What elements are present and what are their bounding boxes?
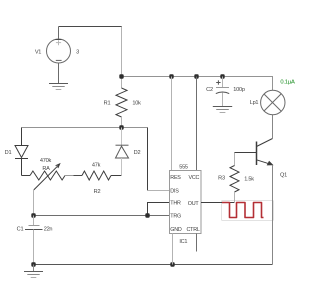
node dot VCC stub xyxy=(194,74,198,78)
wire vertical drop to top rail xyxy=(121,27,123,77)
svg-text:R3: R3 xyxy=(218,176,225,182)
wire V1 top to rail corner xyxy=(59,26,123,28)
svg-text:555: 555 xyxy=(179,164,188,170)
ground bottom left xyxy=(24,265,43,278)
svg-text:10k: 10k xyxy=(132,100,141,106)
svg-text:D1: D1 xyxy=(5,150,12,156)
wire OUT net xyxy=(201,202,235,204)
wire R3 to base xyxy=(235,152,257,154)
wire RA to R2 xyxy=(65,175,74,177)
svg-text:R2: R2 xyxy=(94,189,101,195)
svg-text:47k: 47k xyxy=(92,162,101,168)
svg-text:THR: THR xyxy=(170,201,181,207)
svg-text:TRG: TRG xyxy=(170,213,181,219)
wire top supply rail xyxy=(122,77,273,91)
wire DIS link vertical xyxy=(147,128,149,191)
svg-text:C2: C2 xyxy=(206,87,213,93)
svg-text:Q1: Q1 xyxy=(280,173,287,179)
diode D1 xyxy=(15,128,28,176)
svg-text:0.1µA: 0.1µA xyxy=(280,80,295,86)
svg-text:IC1: IC1 xyxy=(179,239,187,245)
potentiometer RA xyxy=(30,164,65,190)
node dot C1 bottom xyxy=(31,262,35,266)
resistor R2 xyxy=(82,171,111,180)
wire GND stub xyxy=(172,234,174,265)
node dot GND stub xyxy=(170,262,174,266)
wire bottom ground rail xyxy=(34,264,273,266)
svg-text:V1: V1 xyxy=(35,50,41,56)
node dot THR/TRG xyxy=(145,213,149,217)
node dot RES stub xyxy=(169,74,173,78)
svg-text:CTRL: CTRL xyxy=(187,227,200,233)
wire emitter down xyxy=(272,165,274,265)
wire THR link xyxy=(148,203,170,216)
voltage source V1 xyxy=(47,27,71,84)
svg-text:OUT: OUT xyxy=(188,201,200,207)
capacitor C2 xyxy=(216,77,229,107)
svg-text:R1: R1 xyxy=(104,100,111,106)
wire VCC stub xyxy=(196,77,198,171)
wire mid horizontal node xyxy=(22,127,148,129)
ground below C2 xyxy=(213,107,232,113)
svg-text:22n: 22n xyxy=(44,226,53,232)
wire TRG net xyxy=(34,215,170,217)
wire CTRL stub dangling xyxy=(196,234,198,252)
waveform square wave trace xyxy=(222,203,264,218)
node dot top rail / R1 xyxy=(119,74,123,78)
ground below V1 xyxy=(49,84,68,90)
svg-text:VCC: VCC xyxy=(189,175,200,181)
resistor R3 xyxy=(230,153,239,203)
waveform overlay box xyxy=(222,201,274,221)
svg-text:RA: RA xyxy=(42,166,50,172)
svg-text:1.5k: 1.5k xyxy=(244,176,254,182)
wire D1 to RA xyxy=(22,175,31,177)
svg-text:D2: D2 xyxy=(134,150,141,156)
diode D2 xyxy=(116,128,129,176)
wire R2 to D2 xyxy=(111,175,122,177)
node dot C2 xyxy=(220,74,224,78)
svg-text:GND: GND xyxy=(170,227,182,233)
svg-text:RES: RES xyxy=(170,175,181,181)
transistor Q1 xyxy=(257,115,273,165)
wire RES stub xyxy=(171,77,173,171)
lamp Lp1 xyxy=(261,90,285,114)
svg-text:C1: C1 xyxy=(17,226,24,232)
node dot wiper/C1 xyxy=(31,213,35,217)
wire RA wiper down xyxy=(33,190,35,216)
svg-text:3: 3 xyxy=(76,50,79,56)
node dot R1 bottom xyxy=(119,125,123,129)
resistor R1 xyxy=(116,77,127,128)
svg-text:100p: 100p xyxy=(233,87,245,93)
capacitor C1 xyxy=(25,216,43,265)
timer IC1 555 box xyxy=(170,171,202,234)
wire DIS stub xyxy=(148,190,170,192)
svg-text:Lp1: Lp1 xyxy=(250,100,259,106)
svg-text:470k: 470k xyxy=(40,158,52,164)
svg-text:DIS: DIS xyxy=(170,189,179,195)
